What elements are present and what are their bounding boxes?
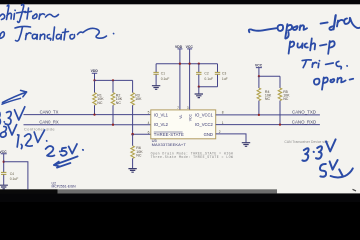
ground under C4 — [0, 185, 8, 189]
junction R1/CAN0_TX — [93, 113, 95, 115]
corner mark bottom-right — [353, 189, 357, 191]
svg-text:8: 8 — [222, 111, 224, 115]
annotation diagonal stroke above 3.3V — [2, 98, 21, 104]
wire C2-C3 bottoms — [199, 86, 218, 88]
capacitor C4 — [1, 172, 18, 185]
svg-text:NC: NC — [136, 154, 142, 158]
video progress gray bar — [58, 189, 278, 193]
svg-text:0.1uF: 0.1uF — [204, 77, 213, 81]
junction VCC/rail — [188, 63, 190, 65]
annotation "Tri-s." (cut at right) — [302, 60, 347, 69]
svg-text:IO_VCC1: IO_VCC1 — [195, 112, 214, 117]
ground pin2 — [242, 143, 250, 147]
wire to ground — [198, 87, 200, 94]
svg-text:CANO_RXD: CANO_RXD — [292, 119, 316, 124]
ground under C1 — [152, 86, 160, 90]
annotation "5V" with swoosh — [320, 160, 353, 178]
wire CANO_RXD net — [216, 119, 320, 124]
junction R3/R6/pin6 — [131, 133, 134, 136]
resistor R1 — [93, 80, 105, 114]
svg-text:4: 4 — [148, 121, 150, 125]
svg-text:VCC: VCC — [255, 64, 263, 68]
svg-text:7: 7 — [177, 106, 179, 110]
pin label THREE-STATE (active low) — [154, 132, 184, 137]
annotation "shifter" (cut at left) — [0, 4, 59, 22]
svg-text:VCC: VCC — [189, 113, 193, 121]
junction VCC/branch — [3, 161, 5, 163]
junction R4/CANO_TXD — [258, 114, 260, 116]
svg-text:MCP2561-E/SN: MCP2561-E/SN — [52, 185, 77, 189]
resistor R2 — [111, 80, 123, 124]
annotation lead swoosh before open-drain — [249, 28, 277, 32]
svg-text:VCC: VCC — [0, 150, 7, 154]
annotation "e Translator." — [0, 26, 114, 41]
svg-text:C4: C4 — [10, 172, 14, 176]
power port VCC (right) — [255, 64, 263, 77]
annotation arrow — [3, 90, 27, 102]
ground under C2/C3 — [195, 94, 203, 98]
svg-text:CANO_TXD: CANO_TXD — [292, 110, 316, 115]
svg-text:IO_VCC2: IO_VCC2 — [195, 122, 214, 127]
svg-text:CAN Transceiver Device side: CAN Transceiver Device side — [284, 140, 328, 144]
svg-text:5: 5 — [148, 111, 150, 115]
svg-text:CAN0_TX: CAN0_TX — [40, 109, 59, 114]
svg-text:0.1uF: 0.1uF — [10, 177, 19, 181]
svg-text:NC: NC — [116, 101, 122, 105]
annotation "3.3V" (left, cut) — [0, 107, 25, 125]
annotation "open." (cut at right) — [314, 77, 353, 89]
svg-text:VL: VL — [179, 115, 183, 119]
annotation "3.3V" (bottom right) — [302, 139, 335, 160]
top letterbox bar — [0, 0, 360, 4]
svg-text:C1: C1 — [161, 72, 165, 76]
annotation "2.5V." with strike arrows — [46, 144, 84, 168]
resistor R5 — [278, 76, 290, 124]
svg-text:6: 6 — [148, 130, 150, 134]
power port VDD (top) — [175, 45, 183, 49]
wire VCC drop to pin 3 — [189, 49, 191, 110]
power port VCC (bottom-left) — [0, 150, 7, 172]
junction C2/rail — [198, 63, 200, 65]
svg-text:C3: C3 — [222, 72, 226, 76]
svg-text:Controller side: Controller side — [24, 127, 55, 132]
capacitor C2 — [196, 64, 213, 87]
junction rail/R2 — [112, 79, 114, 81]
svg-text:IO_VL2: IO_VL2 — [154, 122, 169, 127]
junction R2/CAN0_RX — [112, 124, 114, 126]
ground under R6 — [128, 169, 136, 173]
capacitor C1 — [153, 64, 169, 86]
svg-text:MAX3373EEKA+T: MAX3373EEKA+T — [152, 142, 187, 147]
annotation "1.2V." — [17, 130, 47, 149]
svg-text:C2: C2 — [204, 72, 208, 76]
svg-text:THREE-STATE: THREE-STATE — [154, 132, 184, 137]
wire top rail — [156, 63, 217, 65]
junction C2 bottom — [198, 86, 200, 88]
wire VCC rail right — [259, 75, 280, 77]
svg-text:0.1uF: 0.1uF — [161, 77, 170, 81]
resistor R6 — [131, 134, 143, 168]
wire CANO_TXD net — [216, 110, 320, 115]
bottom-left black strip — [0, 189, 58, 194]
svg-text:NC: NC — [97, 101, 103, 105]
junction VCC/rail right — [258, 75, 260, 77]
svg-text:Three-State Mode: THREE_STATE: Three-State Mode: THREE_STATE = LOW — [151, 155, 234, 159]
annotation "push-p" (cut at right) — [289, 38, 335, 53]
svg-text:VDD: VDD — [91, 69, 99, 73]
wire VDD rail left — [95, 79, 133, 81]
svg-text:NC: NC — [283, 97, 289, 101]
junction VDD/rail — [179, 63, 181, 65]
svg-text:IO_VL1: IO_VL1 — [154, 112, 169, 117]
resistor R3 — [131, 80, 142, 134]
capacitor C3 — [215, 64, 228, 87]
wire CAN0_RX net — [24, 120, 151, 125]
IC body U5 — [151, 110, 216, 139]
annotation "open-dra" (cut at right) — [278, 15, 360, 39]
annotation "1.8V." (cut) — [0, 125, 17, 138]
wire pin2 GND — [216, 134, 246, 143]
bottom letterbox bar — [0, 193, 360, 202]
power port VCC (top) — [186, 45, 194, 49]
resistor R4 — [257, 76, 272, 115]
wire THREE_STATE to pin 6 — [133, 133, 151, 135]
wire VDD drop to pin 7 — [179, 49, 181, 110]
svg-text:CAN0_RX: CAN0_RX — [39, 120, 59, 125]
svg-text:NC: NC — [265, 97, 271, 101]
svg-text:10K: 10K — [135, 97, 142, 101]
junction rail/R1 — [93, 79, 95, 81]
junction R5/CANO_RXD — [279, 123, 281, 125]
wire branch right and down — [4, 162, 28, 190]
svg-text:3: 3 — [187, 106, 189, 110]
svg-text:1uF: 1uF — [222, 77, 228, 81]
wire CAN0_TX net — [24, 109, 151, 114]
svg-text:GND: GND — [204, 132, 213, 137]
power port VDD (left) — [91, 69, 99, 81]
